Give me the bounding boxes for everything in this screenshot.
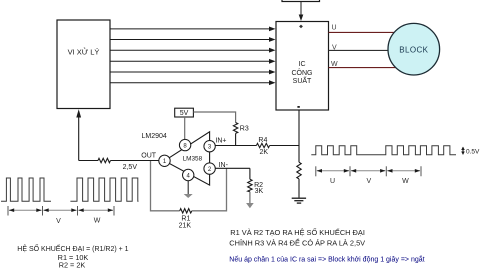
label V <box>56 218 61 225</box>
svg-text:LM358: LM358 <box>183 156 203 163</box>
svg-text:V: V <box>366 178 371 185</box>
label 2K <box>260 149 269 156</box>
5V supply box <box>175 108 194 117</box>
bus wire 5 <box>110 70 276 75</box>
right measure line <box>316 166 421 176</box>
0,5V arrow <box>461 147 465 155</box>
label V <box>366 178 371 185</box>
pin 8 <box>179 139 190 150</box>
wire OUT net <box>79 160 98 162</box>
wire W <box>329 67 397 69</box>
svg-text:V: V <box>332 44 337 51</box>
IC top pin marker <box>299 25 303 29</box>
wire IC bottom to R4 node <box>298 110 300 162</box>
ground arrow below pin 4 <box>184 194 193 198</box>
resistor R1 <box>180 209 192 213</box>
svg-text:2K: 2K <box>260 149 269 156</box>
svg-text:5V: 5V <box>180 110 189 117</box>
label IN+ <box>215 137 226 144</box>
svg-text:IN+: IN+ <box>215 137 226 144</box>
wire V <box>329 49 389 51</box>
note R2 value <box>59 260 86 269</box>
resistor R4 <box>256 143 299 147</box>
svg-text:0.5V: 0.5V <box>466 149 480 156</box>
svg-text:OUT: OUT <box>141 153 157 160</box>
bus wire 3 <box>110 48 276 53</box>
svg-text:Nếu áp chân 1 của IC ra sai =>: Nếu áp chân 1 của IC ra sai => Block khở… <box>229 255 424 264</box>
ground arrow below R2 <box>246 192 254 209</box>
bus wire 2 <box>110 37 276 42</box>
label U <box>332 24 337 31</box>
feedback loop wire <box>151 161 180 211</box>
bus wire 4 <box>110 59 276 64</box>
note R3 R4 adjust <box>229 238 365 247</box>
label 21K <box>179 222 192 229</box>
svg-text:R1 VÀ R2 TẠO RA HỆ SỐ KHUẾCH Đ: R1 VÀ R2 TẠO RA HỆ SỐ KHUẾCH ĐẠI <box>230 227 365 237</box>
label V <box>332 44 337 51</box>
feedback loop wire right <box>192 168 227 211</box>
label 2,5V <box>123 164 138 171</box>
motor BLOCK <box>388 23 440 75</box>
svg-text:W: W <box>402 178 409 185</box>
label R4 <box>258 137 267 144</box>
feedback sense resistor <box>98 158 159 162</box>
label U <box>330 178 335 185</box>
resistor R3 <box>233 123 237 146</box>
microprocessor box VI XU LY <box>57 20 110 109</box>
wire U <box>329 31 395 33</box>
pin 1 <box>159 155 170 166</box>
wire IN- net <box>215 167 250 169</box>
label R2 <box>254 182 263 189</box>
svg-text:V: V <box>56 218 61 225</box>
svg-text:R4: R4 <box>258 137 267 144</box>
wire 5V to pin 8 <box>184 117 186 140</box>
IC bottom pin marker <box>297 106 299 108</box>
svg-text:R2 = 2K: R2 = 2K <box>59 260 86 269</box>
note R1 value <box>58 253 89 262</box>
right waveform <box>311 146 456 155</box>
wire from top box into IC with down arrow <box>299 2 304 22</box>
pin 2 <box>204 163 215 174</box>
node IN+ wire pin3 to R4 <box>215 145 257 147</box>
wire pin 4 to ground <box>187 180 189 194</box>
label R1 <box>181 215 190 222</box>
svg-text:21K: 21K <box>179 222 192 229</box>
op-amp U1 triangle LM358 <box>165 132 210 185</box>
left measure line <box>8 206 114 216</box>
label IN- <box>219 162 229 169</box>
wire up to microprocessor with arrow <box>76 109 81 160</box>
pin 3 <box>204 141 215 152</box>
top supply box (cut off) <box>282 0 320 2</box>
svg-text:3K: 3K <box>255 188 264 195</box>
ground <box>292 198 306 203</box>
svg-text:R3: R3 <box>240 126 249 133</box>
label R3 <box>240 126 249 133</box>
svg-text:LM2904: LM2904 <box>142 133 167 140</box>
label W <box>94 218 101 225</box>
bus wire 1 <box>110 27 276 32</box>
left waveform <box>1 178 139 201</box>
svg-text:R1: R1 <box>181 215 190 222</box>
note block protection <box>229 255 424 264</box>
svg-text:U: U <box>332 24 337 31</box>
label 0,5V <box>466 149 480 156</box>
note R1 R2 gain <box>230 227 365 237</box>
bus wire 6 <box>110 80 276 85</box>
svg-text:IC: IC <box>299 61 306 68</box>
svg-text:U: U <box>330 178 335 185</box>
label LM2904 <box>142 133 167 140</box>
svg-text:CÔNG: CÔNG <box>292 68 313 77</box>
wire 5V to R3 <box>193 112 235 123</box>
svg-text:W: W <box>331 61 338 68</box>
note gain formula <box>17 243 128 253</box>
pin 4 <box>183 169 194 180</box>
label W <box>402 178 409 185</box>
svg-text:IN-: IN- <box>219 162 229 169</box>
label OUT <box>141 153 157 160</box>
label 3K <box>255 188 264 195</box>
svg-text:CHỈNH R3 VÀ R4 ĐỂ CÓ ÁP RA LÀ: CHỈNH R3 VÀ R4 ĐỂ CÓ ÁP RA LÀ 2,5V <box>229 238 365 247</box>
resistor below IC <box>297 162 301 197</box>
svg-text:W: W <box>94 218 101 225</box>
label W <box>331 61 338 68</box>
svg-text:VI XỬ LÝ: VI XỬ LÝ <box>68 48 100 57</box>
svg-text:BLOCK: BLOCK <box>399 46 428 55</box>
svg-text:2,5V: 2,5V <box>123 164 138 171</box>
resistor R2 <box>248 168 252 191</box>
power IC box IC CONG SUAT <box>276 22 329 111</box>
